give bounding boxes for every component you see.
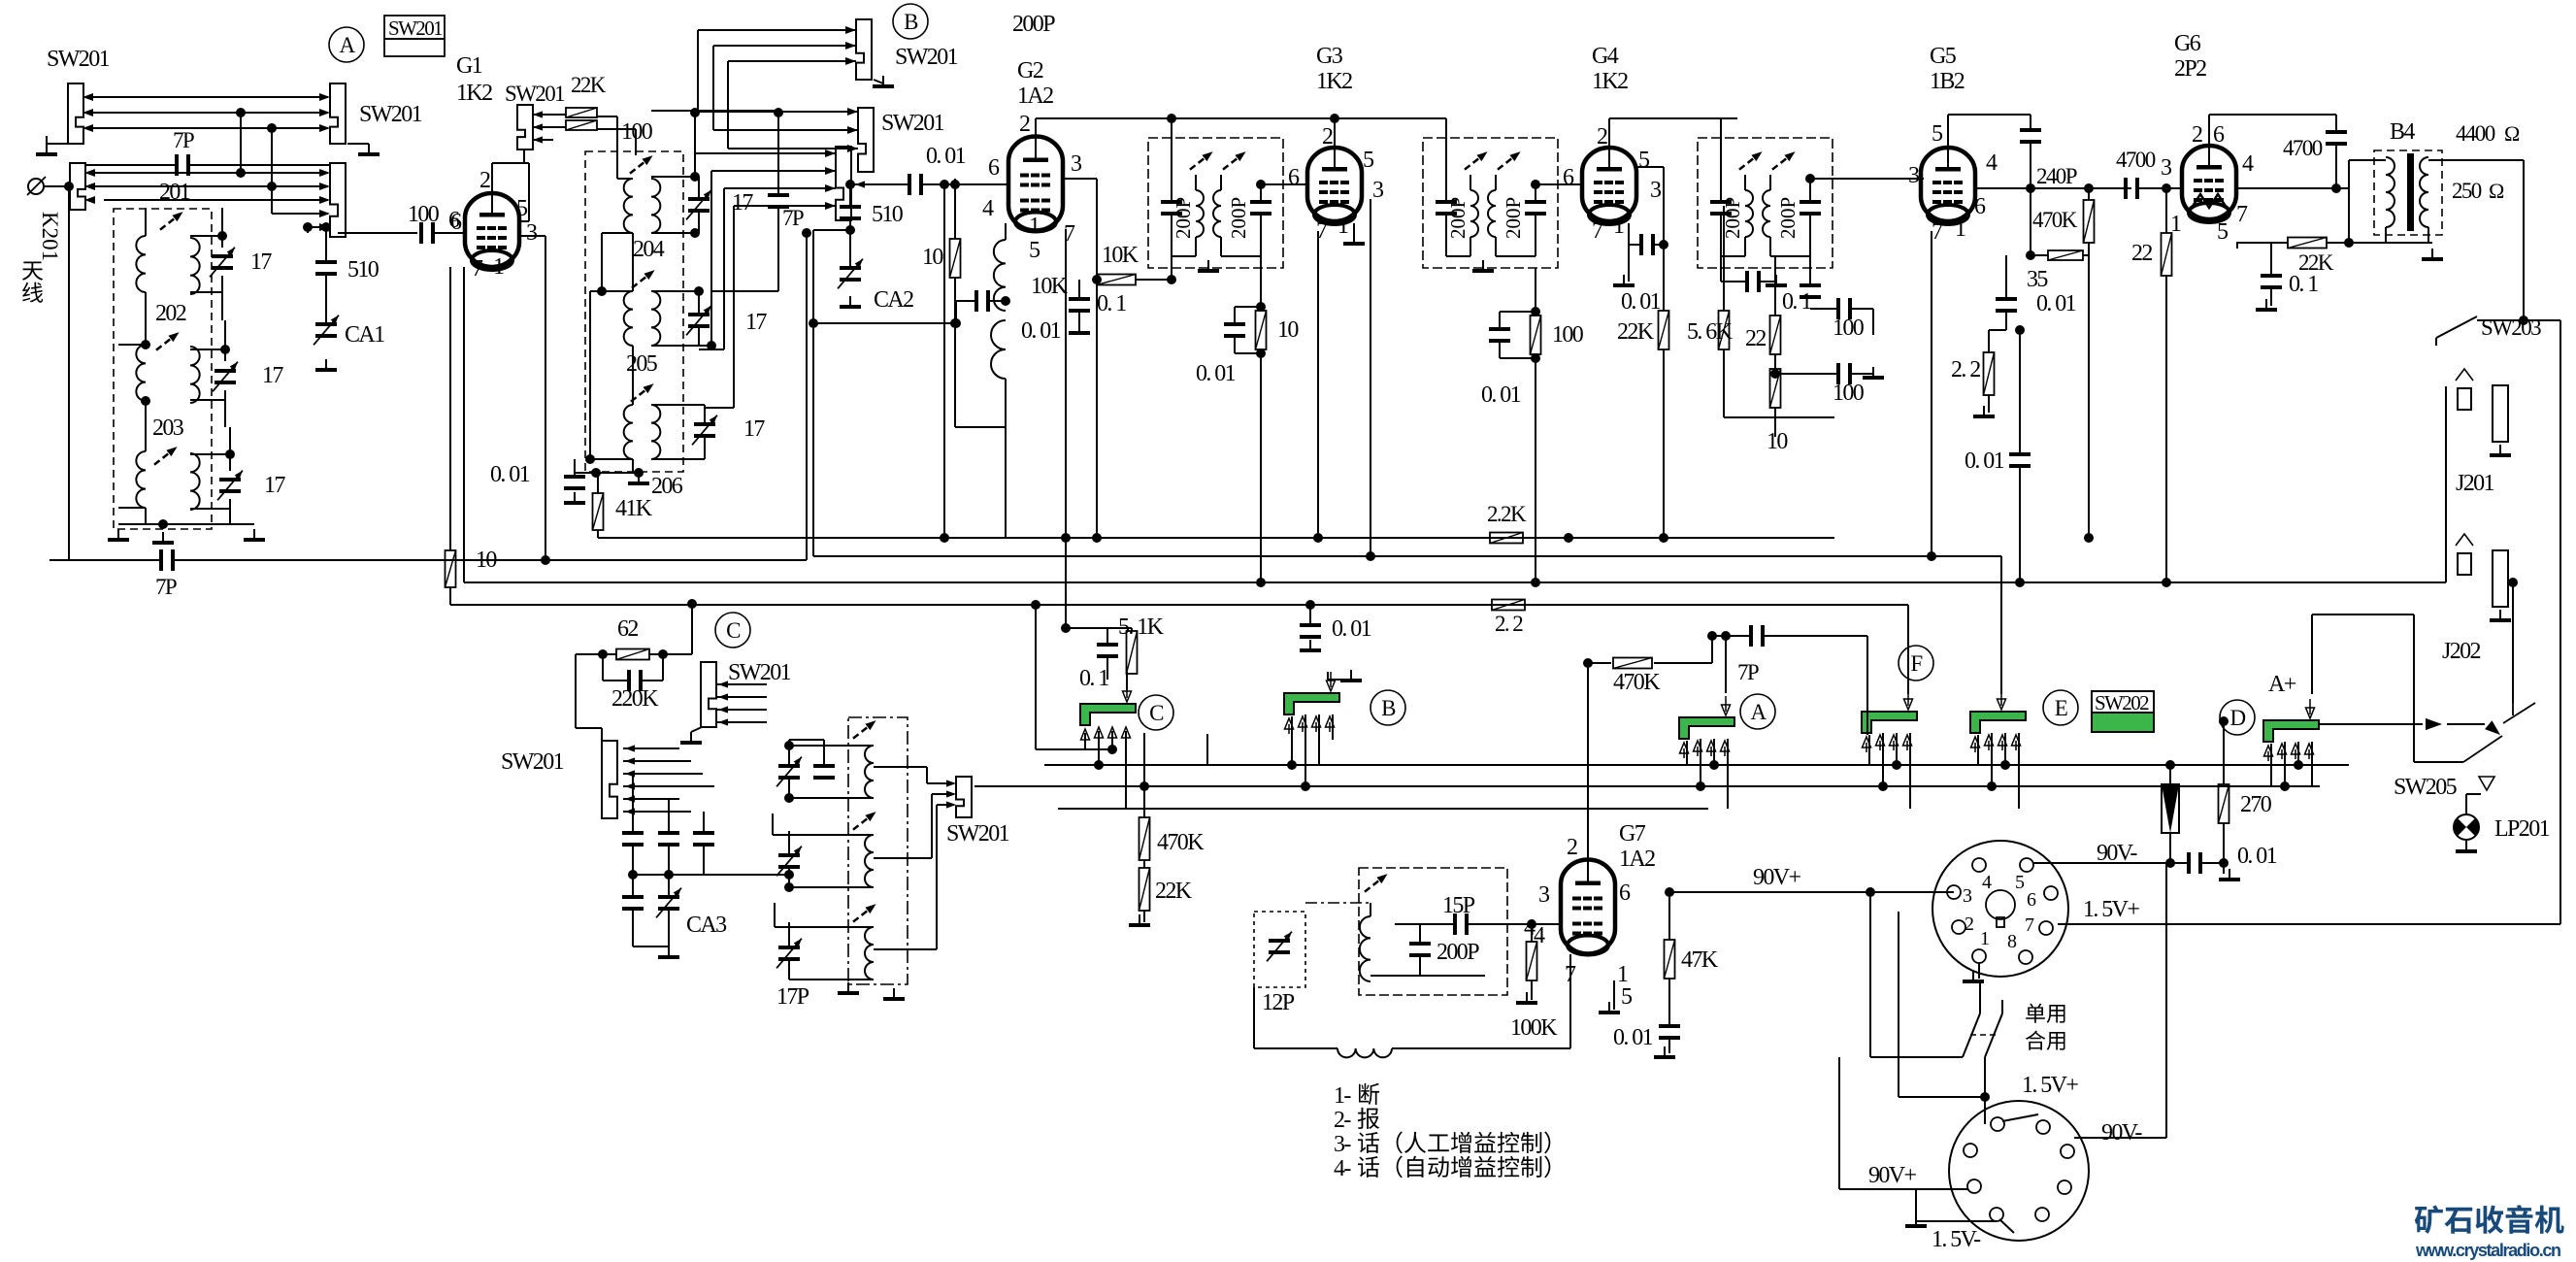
svg-text:J202: J202: [2442, 639, 2481, 664]
svg-text:1: 1: [1613, 214, 1624, 239]
svg-text:0. 01: 0. 01: [1332, 616, 1371, 642]
svg-text:10: 10: [476, 548, 497, 573]
svg-text:6: 6: [1288, 165, 1300, 190]
svg-text:B4: B4: [2390, 119, 2415, 145]
svg-text:4: 4: [2242, 151, 2254, 177]
svg-text:3: 3: [1538, 882, 1550, 908]
svg-text:0. 01: 0. 01: [926, 144, 966, 169]
svg-text:510: 510: [347, 257, 380, 282]
svg-text:10: 10: [1277, 317, 1299, 343]
svg-text:G7: G7: [1619, 821, 1646, 847]
svg-text:5: 5: [1932, 121, 1943, 147]
svg-text:3: 3: [526, 220, 538, 246]
svg-text:6: 6: [1974, 194, 1986, 219]
svg-text:2-: 2-: [1334, 1108, 1351, 1133]
svg-text:C: C: [726, 618, 741, 643]
svg-text:0. 1: 0. 1: [2289, 272, 2318, 297]
svg-text:35: 35: [2027, 267, 2048, 292]
svg-text:470K: 470K: [2032, 208, 2078, 232]
svg-text:204: 204: [633, 237, 665, 262]
svg-text:22K: 22K: [1155, 879, 1193, 904]
svg-text:200P: 200P: [1012, 12, 1055, 37]
svg-text:100: 100: [621, 119, 653, 145]
svg-text:6: 6: [1563, 165, 1574, 190]
svg-text:SW201: SW201: [895, 45, 958, 70]
svg-text:41K: 41K: [615, 496, 653, 521]
svg-text:22: 22: [1745, 326, 1766, 351]
svg-text:2. 2: 2. 2: [1951, 357, 1980, 382]
svg-text:0. 01: 0. 01: [1965, 448, 2004, 474]
svg-text:205: 205: [626, 351, 658, 377]
svg-text:100: 100: [1833, 315, 1865, 341]
svg-text:2P2: 2P2: [2174, 56, 2206, 82]
svg-text:0. 01: 0. 01: [1021, 318, 1061, 344]
svg-text:200P: 200P: [1502, 197, 1525, 239]
svg-text:1A2: 1A2: [1619, 847, 1655, 872]
svg-text:5: 5: [516, 196, 528, 221]
svg-text:2: 2: [1567, 835, 1577, 860]
svg-text:A: A: [339, 33, 355, 57]
svg-text:0. 1: 0. 1: [1097, 291, 1126, 316]
svg-text:3: 3: [2161, 155, 2172, 181]
svg-text:220K: 220K: [611, 686, 659, 712]
svg-text:2: 2: [1019, 112, 1030, 137]
svg-text:www.crystalradio.cn: www.crystalradio.cn: [2415, 1241, 2561, 1260]
svg-text:200P: 200P: [1446, 197, 1470, 239]
svg-text:2: 2: [479, 168, 490, 193]
svg-text:7: 7: [472, 256, 483, 282]
svg-text:LP201: LP201: [2494, 816, 2550, 842]
svg-text:D: D: [2229, 706, 2245, 730]
svg-text:0. 1: 0. 1: [1782, 289, 1811, 315]
svg-text:17: 17: [262, 363, 283, 388]
svg-text:6: 6: [2213, 122, 2225, 148]
svg-text:200P: 200P: [1172, 197, 1195, 239]
svg-text:100: 100: [408, 202, 440, 227]
svg-text:0. 01: 0. 01: [1481, 382, 1521, 408]
svg-text:F: F: [1910, 651, 1922, 676]
svg-text:202: 202: [155, 301, 186, 326]
svg-text:7P: 7P: [1737, 660, 1759, 684]
svg-text:1. 5V-: 1. 5V-: [1932, 1227, 1981, 1252]
svg-text:G2: G2: [1017, 58, 1043, 83]
svg-text:7P: 7P: [155, 575, 177, 599]
svg-text:1: 1: [1980, 928, 1989, 949]
svg-text:1: 1: [1955, 216, 1965, 242]
svg-text:0. 01: 0. 01: [490, 462, 530, 487]
svg-text:200P: 200P: [1227, 197, 1250, 239]
svg-text:4: 4: [982, 196, 994, 221]
svg-text:240P: 240P: [2036, 164, 2077, 188]
svg-text:G5: G5: [1930, 44, 1957, 69]
svg-text:Ω: Ω: [2489, 179, 2504, 203]
svg-text:22: 22: [2131, 241, 2152, 266]
svg-text:SW201: SW201: [505, 82, 565, 106]
svg-text:SW201: SW201: [728, 660, 791, 685]
svg-text:SW201: SW201: [388, 17, 443, 40]
svg-text:100: 100: [1552, 322, 1584, 348]
svg-text:10: 10: [922, 245, 943, 270]
svg-text:A: A: [1750, 700, 1767, 724]
svg-text:SW201: SW201: [881, 111, 944, 136]
svg-text:3-: 3-: [1334, 1132, 1351, 1157]
svg-text:G1: G1: [456, 53, 482, 79]
svg-text:1B2: 1B2: [1930, 69, 1965, 94]
svg-text:4-: 4-: [1334, 1156, 1351, 1181]
svg-text:7: 7: [1592, 218, 1603, 244]
svg-text:C: C: [1149, 701, 1164, 725]
svg-text:0. 1: 0. 1: [1079, 666, 1108, 691]
svg-text:0. 01: 0. 01: [1196, 361, 1236, 386]
svg-text:4700: 4700: [2283, 136, 2323, 160]
svg-text:10K: 10K: [1102, 243, 1139, 268]
svg-text:201: 201: [159, 180, 190, 205]
svg-text:470K: 470K: [1613, 670, 1661, 695]
svg-text:1-: 1-: [1334, 1083, 1351, 1109]
svg-text:2: 2: [1965, 913, 1973, 935]
svg-text:0. 01: 0. 01: [2237, 844, 2277, 869]
svg-text:203: 203: [152, 415, 184, 441]
svg-text:5: 5: [1363, 148, 1374, 173]
svg-text:5: 5: [2217, 219, 2229, 245]
svg-text:0. 01: 0. 01: [1613, 1025, 1653, 1050]
svg-text:90V+: 90V+: [1753, 865, 1801, 890]
svg-text:1: 1: [1029, 214, 1040, 239]
svg-text:17: 17: [250, 249, 272, 275]
svg-text:4700: 4700: [2116, 148, 2156, 172]
svg-text:K201: K201: [38, 212, 62, 261]
svg-text:17P: 17P: [776, 984, 809, 1010]
svg-text:3: 3: [1372, 178, 1384, 203]
svg-text:G4: G4: [1592, 44, 1619, 69]
svg-text:J201: J201: [2456, 471, 2494, 496]
svg-text:90V-: 90V-: [2101, 1120, 2142, 1146]
svg-text:7: 7: [2236, 202, 2248, 227]
svg-text:E: E: [2055, 696, 2067, 720]
svg-text:100K: 100K: [1510, 1015, 1558, 1041]
svg-text:6: 6: [988, 155, 1000, 181]
svg-text:A+: A+: [2268, 672, 2296, 697]
svg-text:250: 250: [2452, 179, 2482, 203]
svg-text:206: 206: [651, 474, 683, 499]
svg-text:G6: G6: [2174, 31, 2201, 56]
svg-text:12P: 12P: [1262, 990, 1295, 1015]
svg-text:3: 3: [1650, 178, 1662, 203]
svg-text:SW202: SW202: [2095, 691, 2149, 714]
svg-text:5: 5: [1638, 148, 1650, 173]
svg-text:47K: 47K: [1681, 947, 1719, 973]
svg-text:0. 01: 0. 01: [2036, 291, 2076, 316]
svg-text:G3: G3: [1316, 44, 1343, 69]
svg-text:6: 6: [1619, 880, 1631, 906]
svg-text:B: B: [904, 10, 918, 34]
svg-text:7: 7: [1932, 219, 1943, 245]
svg-text:17: 17: [264, 473, 285, 498]
svg-text:CA1: CA1: [345, 322, 384, 348]
svg-text:5: 5: [1621, 984, 1633, 1010]
svg-text:5: 5: [1029, 238, 1040, 263]
svg-text:CA3: CA3: [686, 913, 727, 938]
svg-text:Ω: Ω: [2504, 121, 2520, 146]
svg-text:22K: 22K: [1617, 319, 1655, 345]
svg-text:0. 01: 0. 01: [1621, 289, 1661, 315]
svg-text:2: 2: [1322, 124, 1333, 149]
svg-text:90V+: 90V+: [1868, 1163, 1917, 1188]
svg-text:1: 1: [1338, 214, 1348, 239]
svg-text:2: 2: [1597, 124, 1607, 149]
svg-text:CA2: CA2: [874, 287, 913, 313]
svg-text:3: 3: [1071, 151, 1082, 177]
svg-text:SW205: SW205: [2394, 775, 2458, 800]
svg-text:2. 2: 2. 2: [1495, 612, 1523, 636]
svg-text:2: 2: [2192, 122, 2202, 148]
svg-text:470K: 470K: [1157, 830, 1205, 855]
svg-text:1A2: 1A2: [1017, 83, 1053, 109]
svg-text:SW201: SW201: [47, 47, 110, 72]
svg-text:SW203: SW203: [2481, 315, 2541, 340]
svg-text:100: 100: [1833, 381, 1865, 406]
svg-text:7P: 7P: [782, 206, 804, 230]
svg-text:SW201: SW201: [359, 102, 422, 127]
svg-text:1. 5V+: 1. 5V+: [2083, 897, 2139, 922]
svg-text:2.2K: 2.2K: [1487, 502, 1527, 526]
svg-text:510: 510: [872, 202, 904, 227]
svg-text:1K2: 1K2: [1316, 69, 1352, 94]
svg-text:7P: 7P: [173, 128, 194, 152]
svg-text:200P: 200P: [1776, 197, 1800, 239]
svg-text:B: B: [1381, 696, 1396, 720]
svg-text:1. 5V+: 1. 5V+: [2022, 1073, 2078, 1098]
svg-text:17: 17: [743, 416, 765, 442]
svg-text:1K2: 1K2: [456, 81, 492, 106]
svg-text:200P: 200P: [1437, 940, 1479, 965]
svg-text:3: 3: [1908, 163, 1920, 188]
svg-text:17: 17: [732, 190, 753, 216]
svg-text:22K: 22K: [571, 73, 607, 97]
svg-text:17: 17: [745, 310, 767, 335]
svg-text:270: 270: [2240, 792, 2272, 817]
svg-text:1: 1: [493, 254, 504, 280]
svg-text:62: 62: [617, 616, 638, 642]
svg-text:200P: 200P: [1721, 197, 1744, 239]
svg-text:SW201: SW201: [501, 749, 564, 775]
svg-text:10: 10: [1767, 429, 1788, 454]
svg-text:1K2: 1K2: [1592, 69, 1628, 94]
svg-text:4400: 4400: [2456, 121, 2495, 146]
svg-text:4: 4: [1986, 150, 1998, 176]
svg-text:6: 6: [450, 210, 462, 235]
svg-text:SW201: SW201: [946, 821, 1009, 847]
svg-text:15P: 15P: [1442, 893, 1475, 918]
svg-text:10K: 10K: [1031, 274, 1069, 299]
